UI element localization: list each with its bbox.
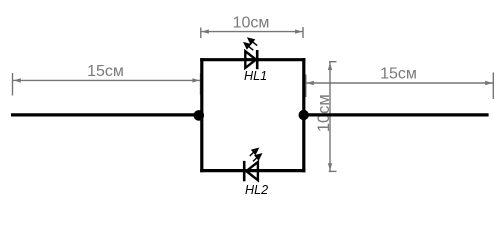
LED HL1 cathode bar — [256, 50, 259, 69]
dimension 15cm left: extension tick left — [12, 73, 14, 96]
wire left lead — [11, 113, 202, 116]
svg-text:HL2: HL2 — [245, 183, 268, 197]
dimension 15cm right: dimension line — [306, 82, 494, 84]
dimension 10cm top: extension tick right — [302, 27, 304, 38]
dimension 15cm right: arrowhead right — [485, 81, 492, 85]
dimension 10cm top: arrowhead right — [295, 29, 302, 33]
dimension 15cm right: arrowhead left — [307, 81, 314, 85]
svg-text:15см: 15см — [87, 63, 124, 80]
dimension 15cm left: arrowhead left — [14, 78, 21, 82]
LED HL2 diode triangle — [246, 162, 258, 180]
wire loop: bottom side — [200, 169, 305, 172]
svg-text:15см: 15см — [380, 65, 417, 82]
dimension 10cm vertical: dimension line — [329, 62, 331, 171]
dimension 10cm vertical: arrowhead top — [328, 63, 332, 70]
wire loop: top side — [200, 58, 305, 61]
LED HL2 cathode bar — [243, 161, 246, 181]
dimension 10cm top: dimension line — [201, 31, 303, 33]
dimension 15cm right: extension tick left — [305, 75, 307, 98]
svg-text:10см: 10см — [315, 94, 333, 132]
dimension 15cm left: arrowhead right — [192, 78, 199, 82]
LED HL2 emission arrow 1 — [250, 149, 258, 156]
junction node left — [194, 110, 205, 121]
dimension 10cm vertical: arrowhead bottom — [328, 163, 332, 170]
dimension 15cm left: extension tick right — [200, 74, 202, 96]
junction node right — [299, 110, 309, 120]
wire loop: right side — [302, 58, 305, 172]
wire right lead — [304, 113, 489, 116]
LED HL1 emission arrow 2 — [244, 43, 253, 50]
dimension 10cm top: extension tick left — [200, 28, 202, 39]
dimension 15cm right: extension tick right — [492, 73, 494, 100]
dimension 10cm vertical: extension tick top — [329, 61, 337, 63]
dimension 15cm left: dimension line — [13, 79, 201, 81]
dimension 10cm vertical: extension tick bottom — [329, 170, 337, 172]
LED HL1 emission arrow 1 — [248, 38, 257, 45]
svg-text:HL1: HL1 — [244, 69, 267, 83]
svg-text:10см: 10см — [233, 14, 270, 31]
dimension 10cm top: arrowhead left — [202, 29, 209, 33]
LED HL2 emission arrow 2 — [253, 154, 261, 161]
LED HL1 diode triangle — [245, 51, 256, 68]
wire loop: left side — [200, 58, 203, 172]
